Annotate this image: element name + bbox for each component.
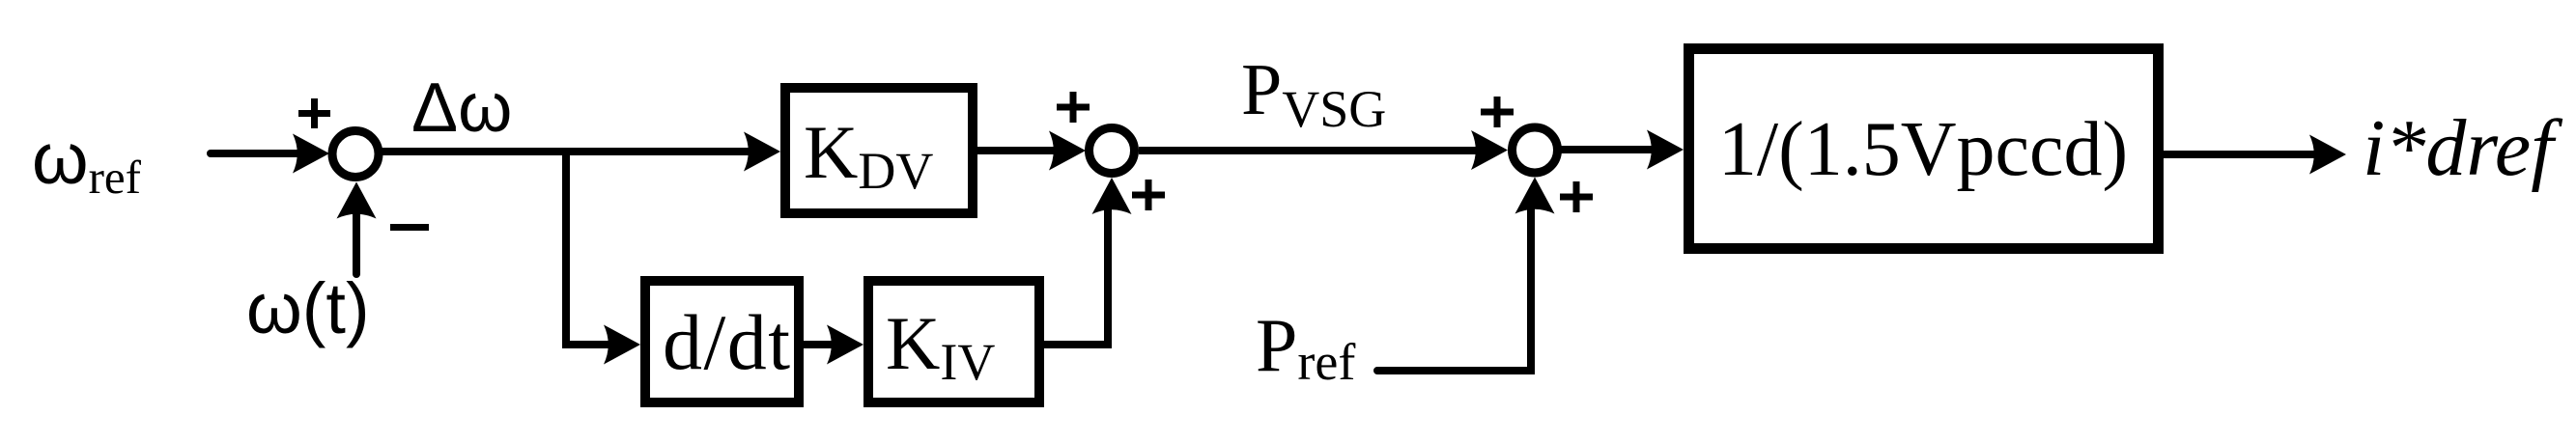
plus sign top-left S2: [1057, 92, 1090, 123]
wire S3 to main block: [1558, 146, 1657, 153]
plus sign bottom-right S3: [1560, 181, 1593, 212]
arrowhead KIV into S2: [1092, 178, 1132, 214]
arrowhead into S2: [1049, 131, 1086, 171]
wire Pref to S3: [1377, 204, 1531, 371]
svg-text:ω(t): ω(t): [246, 268, 370, 348]
summing junction S3: [1513, 127, 1558, 173]
arrowhead output: [2309, 135, 2346, 175]
svg-text:Δω: Δω: [411, 69, 512, 147]
plus sign top-left S3: [1481, 97, 1514, 127]
wire d/dt to KIV: [804, 341, 838, 348]
arrowhead into KDV: [744, 132, 780, 172]
wire S1 to branch and KDV: [379, 148, 755, 155]
summing junction S2: [1090, 128, 1135, 174]
wire branch to d/dt: [562, 341, 615, 348]
svg-text:1/(1.5Vpccd): 1/(1.5Vpccd): [1718, 107, 2128, 192]
arrowhead into KIV: [827, 325, 863, 365]
wire input from wref: [211, 150, 304, 157]
arrowhead w(t) into S1: [337, 182, 377, 219]
wire KDV to S2: [977, 147, 1061, 154]
svg-text:i*dref: i*dref: [2363, 103, 2563, 193]
wire KIV to S2: [1040, 205, 1108, 345]
wire out of main block: [2164, 151, 2319, 158]
arrowhead into summing junction S1: [293, 134, 329, 174]
plus sign at S1: [298, 98, 330, 128]
svg-text:d/dt: d/dt: [663, 298, 792, 386]
arrowhead into d/dt: [604, 325, 640, 365]
arrowhead Pref into S3: [1515, 178, 1555, 214]
summing junction S1: [332, 131, 379, 178]
arrowhead into main block: [1647, 130, 1684, 170]
plus sign bottom-right S2: [1132, 180, 1165, 210]
wire from w(t) up into S1: [353, 205, 360, 274]
arrowhead into S3: [1471, 130, 1508, 170]
block KDV: [785, 88, 973, 213]
block KIV: [868, 281, 1039, 402]
minus sign at S1: [390, 224, 429, 231]
wire branch vertical: [562, 148, 570, 348]
block d/dt: [645, 281, 799, 402]
wire S2 to S3: [1139, 147, 1482, 154]
block 1/(1.5Vpccd): [1689, 49, 2159, 249]
